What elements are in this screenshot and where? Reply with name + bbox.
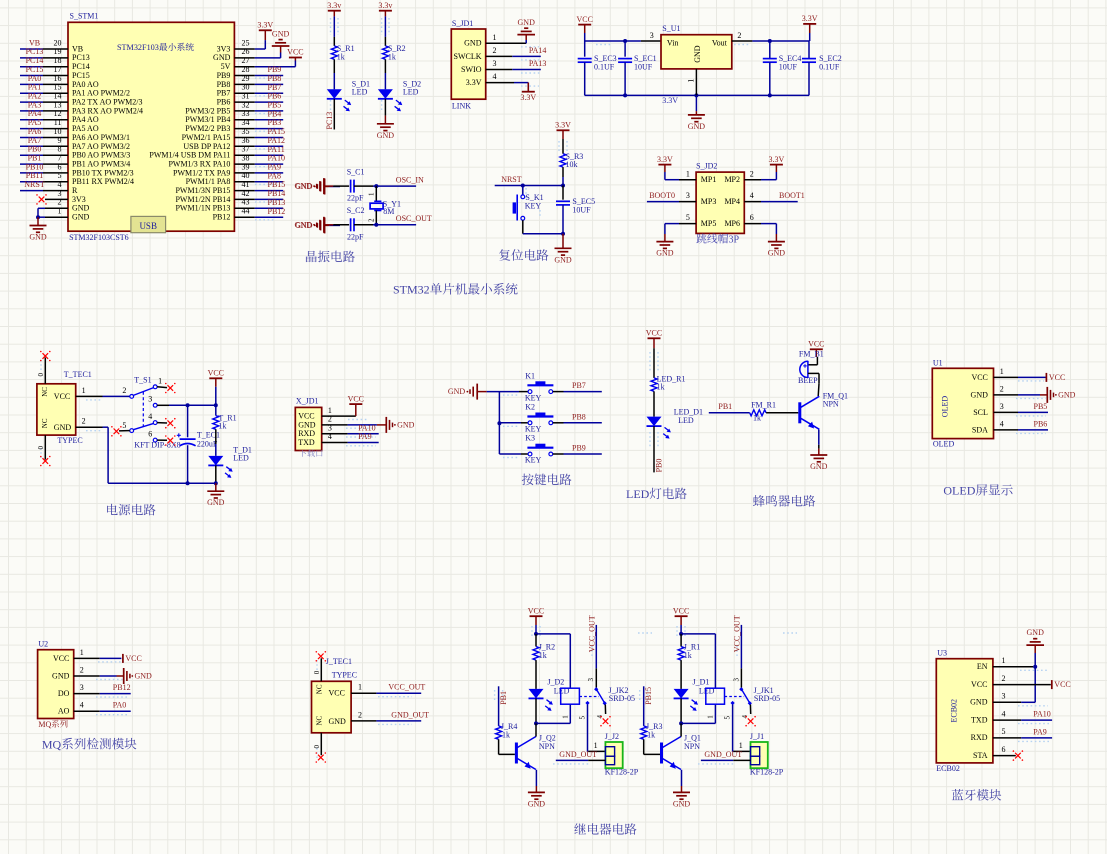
wire GND to K1 branch xyxy=(487,392,529,454)
selection artifacts (light blue dots) xyxy=(41,18,1050,764)
S_STM1 pin 3 no-connect xyxy=(36,189,68,205)
svg-text:VCC: VCC xyxy=(329,689,345,698)
ground symbol below reset circuit xyxy=(554,234,572,265)
svg-text:NC: NC xyxy=(41,387,49,397)
svg-text:OLED: OLED xyxy=(943,484,975,498)
resistor S_R3 10k xyxy=(560,152,583,169)
svg-text:PB15: PB15 xyxy=(268,180,286,189)
svg-text:37: 37 xyxy=(242,145,250,154)
wire collector node to relay coil bottom xyxy=(681,704,715,723)
svg-text:PWM1/1 PA8: PWM1/1 PA8 xyxy=(186,177,231,186)
svg-text:GND_OUT: GND_OUT xyxy=(391,710,429,719)
svg-text:VCC_OUT: VCC_OUT xyxy=(732,615,741,652)
svg-text:OLED: OLED xyxy=(941,396,950,418)
T_S1 pin 6 no-connect xyxy=(157,435,176,446)
svg-text:GND: GND xyxy=(971,390,989,399)
svg-text:PWM3/1 PB4: PWM3/1 PB4 xyxy=(185,115,230,124)
ground symbol below J_Q1 xyxy=(673,786,691,808)
svg-text:VB: VB xyxy=(29,38,40,47)
power symbol 3.3V at S_JD2 pin 2 xyxy=(769,155,785,172)
wire VCC to FM_B1 xyxy=(808,357,818,365)
svg-text:PWM1/1N PB13: PWM1/1N PB13 xyxy=(175,204,230,213)
wire S_STM1 pin 26 to GND xyxy=(234,47,280,58)
relay NO contact no-connect xyxy=(596,705,611,727)
svg-text:VCC: VCC xyxy=(673,606,689,615)
power symbol 3.3V at S_JD2 pin 1 xyxy=(657,155,673,172)
svg-text:3.3V: 3.3V xyxy=(555,121,571,130)
wire X_JD1 pin 1 to VCC xyxy=(322,415,356,417)
svg-text:S_JD1: S_JD1 xyxy=(452,19,473,28)
wire net PA12 from S_STM1 pin 36 xyxy=(234,145,283,147)
wire T_TEC1 GND pin 2 to bottom rail xyxy=(76,417,216,484)
svg-text:2: 2 xyxy=(737,31,741,40)
svg-text:6: 6 xyxy=(750,213,754,222)
svg-text:28: 28 xyxy=(242,65,250,74)
wire X_JD1 pin 4 net PA9 xyxy=(322,442,379,444)
wire net PC14 to S_STM1 pin 18 xyxy=(20,66,68,68)
svg-text:PB12: PB12 xyxy=(213,213,231,222)
svg-text:PA15: PA15 xyxy=(268,127,286,136)
ground symbol below J_Q2 xyxy=(528,786,546,808)
junction collector node xyxy=(679,721,683,725)
svg-text:MP4: MP4 xyxy=(724,197,740,206)
svg-text:LED: LED xyxy=(626,487,650,501)
svg-text:PWM2/2 PB3: PWM2/2 PB3 xyxy=(185,124,230,133)
svg-text:GND: GND xyxy=(970,698,988,707)
wire J_TEC1 pin 1 net VCC_OUT xyxy=(351,683,421,694)
wire T_TEC1 VCC pin 1 to switch T_S1 xyxy=(76,386,130,397)
svg-text:1: 1 xyxy=(82,386,86,395)
svg-text:K2: K2 xyxy=(525,403,535,412)
svg-text:1: 1 xyxy=(328,406,332,415)
junction T_D1 at rail xyxy=(214,481,218,485)
wire net GND_OUT to J_J1 pin 2 xyxy=(701,759,751,761)
svg-text:1: 1 xyxy=(739,741,743,750)
wire net PB13 from S_STM1 pin 43 xyxy=(234,207,283,209)
svg-text:2: 2 xyxy=(367,218,375,222)
junction at T_EC1 top xyxy=(186,403,190,407)
wire collector node to relay coil bottom xyxy=(536,704,570,723)
wire relay NC contact to J_J1 pin 1 xyxy=(723,705,750,752)
IC U3 bluetooth module ECB02 xyxy=(936,649,1005,773)
junction at S_STM1 pin1 GND hook xyxy=(36,215,40,219)
svg-text:PB12: PB12 xyxy=(268,207,286,216)
capacitor T_EC1 220uF electrolytic xyxy=(177,405,220,483)
svg-text:4: 4 xyxy=(80,701,84,710)
wire net PB3 from S_STM1 pin 34 xyxy=(234,128,283,130)
svg-text:S_U1: S_U1 xyxy=(662,24,680,33)
svg-text:USB: USB xyxy=(139,221,157,231)
wire relay NC contact to J_J2 pin 1 xyxy=(578,705,605,752)
power symbol VCC at U3 pin 2 xyxy=(1051,680,1053,689)
svg-text:PB9: PB9 xyxy=(572,444,586,453)
svg-text:31: 31 xyxy=(242,92,250,101)
relay J_JK1 SRD-05 xyxy=(706,668,780,705)
power symbol VCC above J_R1 xyxy=(673,606,689,634)
svg-text:KEY: KEY xyxy=(525,393,542,402)
svg-text:4: 4 xyxy=(1000,419,1004,428)
svg-text:3: 3 xyxy=(80,683,84,692)
wire net PA4 to S_STM1 pin 12 xyxy=(20,119,68,121)
svg-text:PA5 AO: PA5 AO xyxy=(72,124,99,133)
wire J_R3 to J_Q1 base xyxy=(644,739,660,754)
transistor FM_Q1 NPN xyxy=(800,391,848,429)
svg-text:36: 36 xyxy=(242,136,250,145)
svg-text:PB7: PB7 xyxy=(217,89,231,98)
svg-text:PA1 AO PWM2/2: PA1 AO PWM2/2 xyxy=(72,89,130,98)
svg-text:PB14: PB14 xyxy=(268,189,286,198)
svg-text:KFT DIP-8X8: KFT DIP-8X8 xyxy=(134,441,180,450)
power symbol 3.3V above S_R3 xyxy=(555,121,571,140)
svg-text:15: 15 xyxy=(54,83,62,92)
IC S_STM1 STM32F103 minimal system xyxy=(68,12,234,242)
power symbol VCC above LED_R1 xyxy=(646,329,662,349)
wire U2 pin 3 net PB12 xyxy=(74,693,131,695)
LED J_D2 xyxy=(529,678,570,711)
svg-text:VCC: VCC xyxy=(348,394,364,403)
svg-text:PA12: PA12 xyxy=(268,136,286,145)
svg-text:NPN: NPN xyxy=(684,742,700,751)
wire net PC13 to S_STM1 pin 19 xyxy=(20,57,68,59)
wire J_TEC1 pin 2 net GND_OUT xyxy=(351,710,421,721)
svg-text:PB7: PB7 xyxy=(572,381,586,390)
wire U1 pin 3 net PB5 xyxy=(994,411,1049,413)
push button S_K1 KEY xyxy=(514,186,543,221)
push button K1 KEY xyxy=(525,371,554,402)
svg-text:3P: 3P xyxy=(729,235,740,246)
svg-text:ECB02: ECB02 xyxy=(950,699,959,723)
wire bottom 3.3V rail xyxy=(585,94,809,96)
svg-text:GND_OUT: GND_OUT xyxy=(704,750,742,759)
svg-text:5: 5 xyxy=(723,716,731,720)
svg-text:2: 2 xyxy=(80,666,84,675)
wire S_R3 to NRST node xyxy=(562,167,564,185)
resistor J_R2 1k xyxy=(533,634,555,660)
wire S_JD1 pin 1 to GND xyxy=(486,40,527,43)
wire net PA0 to S_STM1 pin 16 xyxy=(20,83,68,85)
resistor LED_R1 1k xyxy=(651,374,685,391)
svg-text:1k: 1k xyxy=(388,52,396,61)
svg-text:NC: NC xyxy=(316,715,324,725)
relay J_JK2 SRD-05 xyxy=(561,668,635,705)
svg-text:VCC: VCC xyxy=(1054,680,1070,689)
caption power circuit xyxy=(107,504,118,515)
wire VCC to LED_R1 xyxy=(653,348,655,378)
wire net PA15 from S_STM1 pin 35 xyxy=(234,137,283,139)
wire S_D2 cathode to GND xyxy=(384,99,386,116)
wire net PA3 to S_STM1 pin 13 xyxy=(20,110,68,112)
wire U2 pin 2 to GND xyxy=(74,675,124,677)
svg-text:11: 11 xyxy=(54,118,62,127)
ground symbol above U3 xyxy=(1026,628,1044,653)
ground symbol below S_JD2 pin 6 xyxy=(768,234,786,258)
svg-text:5: 5 xyxy=(58,171,62,180)
svg-text:32: 32 xyxy=(242,100,250,109)
svg-text:GND: GND xyxy=(688,122,706,131)
svg-text:S_STM1: S_STM1 xyxy=(70,12,99,21)
wire S_JD1 pin 3 net PA13 xyxy=(486,69,541,71)
svg-text:4: 4 xyxy=(750,191,754,200)
wire K3 to net PB9 xyxy=(553,453,602,455)
svg-text:0.1UF: 0.1UF xyxy=(594,63,615,72)
svg-text:GND: GND xyxy=(377,131,395,140)
svg-text:PA4 AO: PA4 AO xyxy=(72,115,99,124)
wire J_R2 to J_D2 xyxy=(535,660,537,689)
junction NRST at S_K1 branch xyxy=(521,184,525,188)
svg-text:GND: GND xyxy=(135,672,153,681)
svg-text:PA0 AO: PA0 AO xyxy=(72,80,99,89)
svg-text:GND: GND xyxy=(810,462,828,471)
svg-text:3.3v: 3.3v xyxy=(327,1,341,10)
svg-text:1: 1 xyxy=(80,648,84,657)
terminal block J_J2 KF128-2P xyxy=(605,732,639,777)
svg-text:3V3: 3V3 xyxy=(217,44,231,53)
wire net PA11 from S_STM1 pin 37 xyxy=(234,154,283,156)
svg-text:MP3: MP3 xyxy=(701,197,717,206)
wire net PB7 from S_STM1 pin 30 xyxy=(234,92,283,94)
svg-text:FM_B1: FM_B1 xyxy=(799,350,824,359)
svg-text:0: 0 xyxy=(313,745,321,749)
svg-text:TYPEC: TYPEC xyxy=(57,436,82,445)
svg-text:PB5: PB5 xyxy=(1034,402,1048,411)
wire 3.3v to S_R2 xyxy=(384,16,386,46)
svg-text:GND: GND xyxy=(528,799,546,808)
ground symbol at S_STM1 pin 26 xyxy=(272,30,290,53)
svg-text:FM_R1: FM_R1 xyxy=(751,400,776,409)
wire S_C1 to OSC_IN xyxy=(354,185,416,187)
ground symbol left of S_C2 xyxy=(295,217,350,233)
wire net PB9 from S_STM1 pin 28 xyxy=(234,75,283,77)
svg-text:5: 5 xyxy=(578,716,586,720)
svg-text:T_S1: T_S1 xyxy=(134,375,151,384)
svg-text:VCC: VCC xyxy=(528,606,544,615)
junction bottom rail at S_U1 GND xyxy=(694,93,698,97)
svg-text:2: 2 xyxy=(82,417,86,426)
ground symbol below S_JD2 pin 5 xyxy=(656,234,674,258)
IC U2 MQ gas sensor module xyxy=(38,640,84,719)
svg-text:BEEP: BEEP xyxy=(798,376,818,385)
wire S_JD2 pin 6 to GND xyxy=(744,224,776,234)
svg-text:MP6: MP6 xyxy=(724,219,740,228)
svg-text:GND: GND xyxy=(54,423,72,432)
svg-text:VCC: VCC xyxy=(576,15,592,24)
svg-text:R: R xyxy=(72,186,78,195)
wire U3 pin 2 to VCC xyxy=(993,684,1051,686)
LED T_D1 xyxy=(208,445,252,478)
svg-text:3.3V: 3.3V xyxy=(257,21,273,30)
svg-text:26: 26 xyxy=(242,47,250,56)
svg-text:LED: LED xyxy=(678,416,694,425)
resistor S_R2 1k xyxy=(382,44,405,61)
junction VCC node J_R2 xyxy=(534,632,538,636)
svg-text:NPN: NPN xyxy=(823,399,839,408)
caption bluetooth module xyxy=(952,789,964,800)
capacitor S_C2 22pF xyxy=(347,206,365,241)
floating ground stub right of S_STM1 xyxy=(295,217,340,233)
svg-text:1k: 1k xyxy=(218,422,226,431)
wire net PA7 to S_STM1 pin 9 xyxy=(20,145,68,147)
wire net BOOT0 to S_JD2 pin 3 xyxy=(647,201,696,203)
switch T_S1 KFT DIP-8X8 xyxy=(122,375,180,449)
power symbol 3.3V at S_STM1 pin 25 xyxy=(257,21,273,41)
svg-text:1: 1 xyxy=(158,377,162,386)
svg-text:4: 4 xyxy=(1002,710,1006,719)
capacitor S_C1 22pF xyxy=(347,167,365,202)
svg-text:PB8: PB8 xyxy=(268,74,282,83)
svg-text:J_J1: J_J1 xyxy=(750,732,764,741)
svg-text:1: 1 xyxy=(358,683,362,692)
resistor T_R1 1k xyxy=(213,405,237,430)
svg-text:1: 1 xyxy=(594,741,598,750)
svg-text:AO: AO xyxy=(58,707,70,716)
resistor FM_R1 1k xyxy=(750,400,776,422)
svg-text:10k: 10k xyxy=(566,160,578,169)
caption key circuit xyxy=(522,474,534,486)
caption download port xyxy=(299,450,307,457)
svg-text:PA9: PA9 xyxy=(358,432,372,441)
wire 3.3V to S_JD2 pin 2 xyxy=(744,172,776,180)
svg-text:2: 2 xyxy=(1000,384,1004,393)
wire net NRST xyxy=(495,185,563,187)
power symbol VCC above J_R2 xyxy=(528,606,544,634)
svg-text:43: 43 xyxy=(242,198,250,207)
svg-text:PC13: PC13 xyxy=(26,47,44,56)
ground symbol at U2 pin 2 xyxy=(123,668,125,684)
connector S_JD1 SWD link header xyxy=(451,19,496,111)
svg-text:PA1: PA1 xyxy=(28,83,42,92)
wire K2 to net PB8 xyxy=(553,422,602,424)
svg-text:10UF: 10UF xyxy=(572,205,591,214)
svg-text:38: 38 xyxy=(242,154,250,163)
svg-text:SDA: SDA xyxy=(972,425,988,434)
caption reset circuit xyxy=(499,249,510,261)
svg-text:3.3V: 3.3V xyxy=(802,14,818,23)
svg-text:PB6: PB6 xyxy=(268,92,282,101)
svg-text:J_D1: J_D1 xyxy=(693,678,710,687)
wire S_JD1 pin 4 to 3.3V xyxy=(486,83,529,92)
wire collector node to J_Q1 collector xyxy=(680,723,682,736)
wire S_STM1 pin 27 to VCC xyxy=(234,56,295,67)
svg-text:PB9: PB9 xyxy=(217,71,231,80)
T_S1 pin 1 no-connect xyxy=(157,383,176,394)
svg-text:13: 13 xyxy=(54,100,62,109)
U3 pin 6 (STA) no-connect xyxy=(993,750,1023,761)
LED S_D2 xyxy=(378,79,421,111)
wire net PB1 to S_STM1 pin 7 xyxy=(20,163,68,165)
svg-text:J_TEC1: J_TEC1 xyxy=(326,657,352,666)
capacitor S_EC4 10UF xyxy=(763,41,802,95)
resistor J_R4 1k xyxy=(496,722,518,739)
svg-text:5: 5 xyxy=(686,213,690,222)
svg-text:8M: 8M xyxy=(383,207,394,216)
svg-text:GND: GND xyxy=(298,420,316,429)
svg-text:PB8: PB8 xyxy=(217,80,231,89)
svg-text:2: 2 xyxy=(358,710,362,719)
svg-text:22pF: 22pF xyxy=(347,232,364,241)
wire T_S1 pin 3 to VCC node xyxy=(157,404,216,406)
svg-text:PA6 AO PWM3/1: PA6 AO PWM3/1 xyxy=(72,133,130,142)
wire net PA1 to S_STM1 pin 15 xyxy=(20,92,68,94)
svg-text:3: 3 xyxy=(732,678,740,682)
svg-text:KEY: KEY xyxy=(525,456,542,465)
svg-text:PB1: PB1 xyxy=(499,691,508,705)
junction OSC_IN at crystal xyxy=(374,184,378,188)
wire J_R4 to J_Q2 base xyxy=(499,739,515,754)
wire U2 pin 4 net PA0 xyxy=(74,710,131,712)
regulator U1 (S_U1) xyxy=(661,24,732,69)
svg-text:30: 30 xyxy=(242,83,250,92)
wire FM_Q1 emitter to GND xyxy=(818,430,820,449)
power symbol 3.3V below S_JD1 pin 4 xyxy=(520,83,536,102)
ground symbol below S_D2 xyxy=(377,116,395,140)
svg-text:PWM1/3 RX PA10: PWM1/3 RX PA10 xyxy=(168,160,230,169)
svg-text:3: 3 xyxy=(650,31,654,40)
junction key branch K2 xyxy=(497,421,501,425)
wire S_R2 to S_D2 xyxy=(384,59,386,89)
svg-text:RXD: RXD xyxy=(298,429,315,438)
wire S_U1 Vout to output rail xyxy=(732,31,809,41)
svg-text:9: 9 xyxy=(58,136,62,145)
LED LED_D1 xyxy=(647,408,704,439)
power symbol VCC above T_R1 xyxy=(208,369,224,406)
svg-text:1: 1 xyxy=(367,192,375,196)
wire net PB15 from S_STM1 pin 41 xyxy=(234,190,283,192)
svg-text:6: 6 xyxy=(148,430,152,439)
junction at T_R1 top xyxy=(214,403,218,407)
svg-text:39: 39 xyxy=(242,162,250,171)
resistor J_R3 1k xyxy=(641,722,663,739)
svg-text:PB6: PB6 xyxy=(217,98,231,107)
svg-text:3V3: 3V3 xyxy=(72,195,86,204)
svg-text:Vin: Vin xyxy=(667,39,679,48)
svg-text:MP2: MP2 xyxy=(724,175,740,184)
svg-text:ECB02: ECB02 xyxy=(936,764,960,773)
wire net PA5 to S_STM1 pin 11 xyxy=(20,128,68,130)
wire FM_R1 to FM_Q1 base xyxy=(766,412,798,414)
svg-text:6: 6 xyxy=(1002,745,1006,754)
wire net PA6 to S_STM1 pin 10 xyxy=(20,137,68,139)
svg-text:PA8: PA8 xyxy=(268,171,282,180)
relay NO contact no-connect xyxy=(741,705,756,727)
ground symbol right of X_JD1 pin 2 xyxy=(386,417,414,433)
power symbol VCC above buzzer xyxy=(808,340,824,358)
svg-text:2: 2 xyxy=(1002,674,1006,683)
svg-text:20: 20 xyxy=(54,38,62,47)
svg-text:GND: GND xyxy=(1058,391,1076,400)
svg-text:PB0: PB0 xyxy=(654,459,663,473)
svg-text:VCC: VCC xyxy=(971,680,987,689)
svg-text:40: 40 xyxy=(242,171,250,180)
wire U3 pin 4 net PA10 xyxy=(993,719,1052,721)
svg-text:PA10: PA10 xyxy=(358,423,376,432)
svg-text:19: 19 xyxy=(54,47,62,56)
svg-text:3: 3 xyxy=(58,189,62,198)
svg-text:OSC_IN: OSC_IN xyxy=(396,176,424,185)
svg-text:33: 33 xyxy=(242,109,250,118)
svg-text:KF128-2P: KF128-2P xyxy=(605,768,639,777)
svg-text:PB6: PB6 xyxy=(1034,419,1048,428)
svg-text:PWM1/2 TX PA9: PWM1/2 TX PA9 xyxy=(173,168,230,177)
wire VCC node to relay coil top xyxy=(536,634,570,688)
svg-text:KEY: KEY xyxy=(525,425,542,434)
wire net VB to S_STM1 pin 20 xyxy=(20,48,68,50)
svg-text:18: 18 xyxy=(54,56,62,65)
junction at T_EC1 bottom xyxy=(186,481,190,485)
wire 3.3V to S_R3 xyxy=(562,139,564,154)
svg-text:GND: GND xyxy=(72,213,90,222)
crystal S_Y1 8M xyxy=(367,186,401,225)
svg-text:8: 8 xyxy=(58,145,62,154)
